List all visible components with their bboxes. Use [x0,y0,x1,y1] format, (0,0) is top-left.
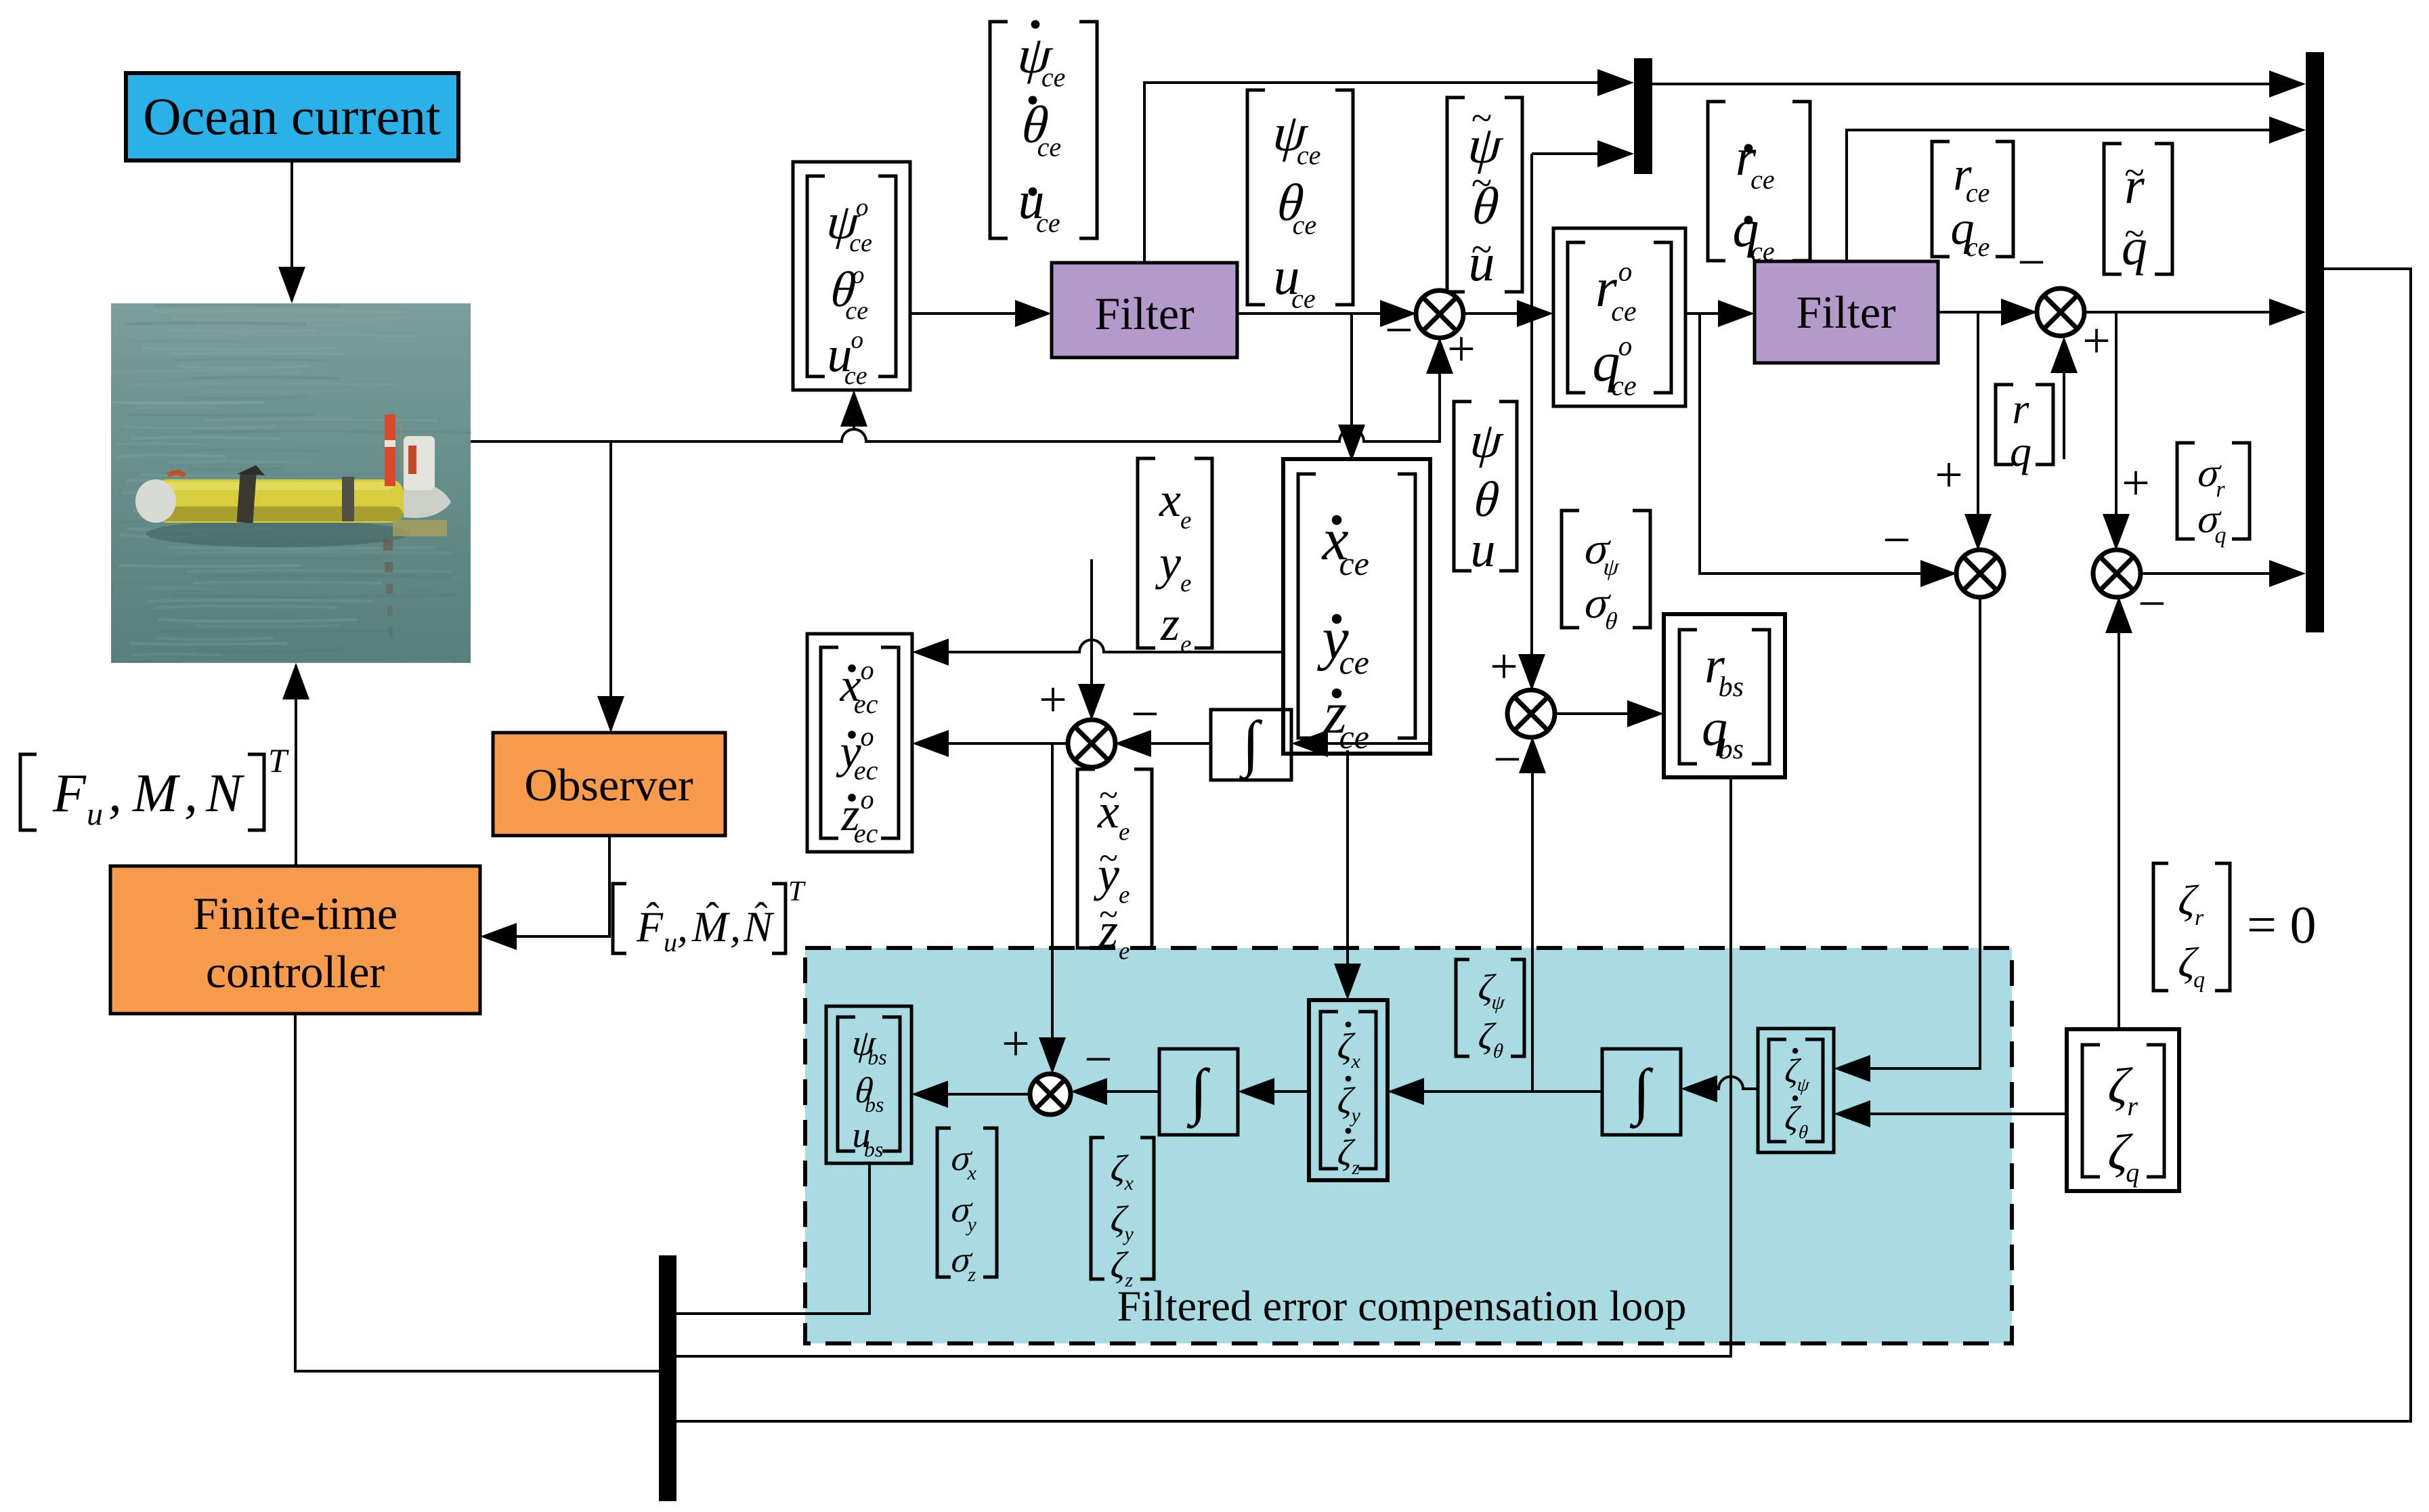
svg-text:e: e [1180,570,1191,598]
wire: top bus to right bus [1652,70,2306,98]
svg-text:ce: ce [1291,283,1316,314]
svg-text:e: e [1119,938,1130,966]
label matrix [r-tilde q-tilde] [2104,144,2172,276]
wire: sum5 to observer-velocity box [912,730,1069,757]
wire: rq stub into sum2 [2050,314,2111,459]
label matrix [psi-tilde theta-tilde u-tilde] [1447,98,1522,292]
svg-text:bs: bs [1719,734,1744,765]
wire: branch down into velocity-command matrix [1338,314,1365,461]
wire: sum5 branch down to sum7 (plus) [1002,743,1066,1074]
svg-text:~: ~ [1471,98,1492,139]
boxed matrix [zeta-dot_x zeta-dot_y zeta-dot_z] [1309,1000,1388,1180]
bus bar bottom-left [659,1255,676,1501]
block: Filter (attitude) [1052,263,1237,358]
wire: stub into sum5 (plus) [1039,559,1105,728]
wire: integrator2 to sum7 [1071,1032,1159,1105]
annotation [zeta_r zeta_q] = 0 [2153,863,2317,993]
wire: feedback branch to Observer [597,441,624,733]
svg-text:+: + [1039,672,1067,728]
label matrix [psi theta u] [1454,402,1517,578]
block: Observer [493,733,725,836]
svg-text:x: x [1159,473,1181,527]
boxed matrix [r_bs q_bs] [1664,614,1785,777]
svg-text:ce: ce [1037,131,1062,162]
svg-text:z: z [1160,597,1180,651]
boxed matrix [psi_bs theta_bs u_bs] [826,1006,911,1163]
filtered error compensation loop region [805,948,2012,1343]
svg-text:~: ~ [1099,896,1118,934]
wire: psi-tilde vertical and into top bus [1490,140,1634,695]
svg-text:−: − [1131,687,1159,742]
wire: command matrix to Filter1 [910,300,1052,327]
wire: controller to AUV [282,663,309,866]
label matrix [x-tilde_e y-tilde_e z-tilde_e] [1077,769,1152,966]
wire: sum1 out to rq-command box [1463,300,1553,327]
wire: sum3 out down-left into zeta-dot box [1834,597,1980,1082]
svg-text:y: y [1123,1223,1134,1245]
svg-text:o: o [1618,255,1633,286]
wire: sum7 to psi-bs box [911,1081,1030,1108]
sum junction S3 [1956,550,2004,597]
sum junction S1 (after Filter1) [1416,290,1463,338]
svg-text:bs: bs [865,1092,884,1117]
wire: controller down to bottom bus [295,1014,659,1371]
svg-text:o: o [861,655,874,685]
svg-text:z: z [1351,1157,1360,1179]
svg-text:−: − [2138,576,2166,632]
svg-text:∫: ∫ [1629,1056,1653,1129]
label matrix [zeta_psi zeta_theta] [1456,959,1524,1062]
svg-text:o: o [861,721,874,752]
svg-text:Finite-time: Finite-time [193,888,397,939]
svg-text:ce: ce [1966,232,1990,262]
boxed matrix [x-dot_ce y-dot_ce z-dot_ce] [1283,459,1430,756]
svg-text:o: o [851,326,863,354]
AUV photograph [111,303,472,663]
sum junction S7 (compensation loop) [1030,1074,1071,1115]
label matrix [zeta_x zeta_y zeta_z] [1091,1138,1154,1291]
svg-text:o: o [861,784,874,815]
svg-text:ˆ: ˆ [646,894,659,938]
wire: branch down to sum4 (plus) [2103,312,2150,550]
svg-text:ˆ: ˆ [706,894,718,938]
svg-text:Filtered error compensation lo: Filtered error compensation loop [1117,1282,1687,1330]
svg-text:r: r [2013,385,2030,433]
sum junction S5 [1068,720,1115,767]
svg-text:Observer: Observer [524,759,693,811]
svg-text:ec: ec [854,818,878,848]
wire: velocity matrix down into zeta-dot-xyz [1334,750,1361,1000]
svg-text:u: u [1471,522,1496,578]
svg-text:,: , [184,764,198,823]
wire: rbs box down and left to bottom bus [676,777,1731,1356]
svg-text:−: − [2017,235,2046,290]
svg-text:,: , [108,764,122,823]
sum junction S2 (after Filter2) [2037,288,2084,336]
svg-text:z: z [967,1263,976,1286]
svg-text:−: − [1385,303,1413,358]
svg-text:~: ~ [1471,229,1492,271]
svg-text:e: e [1119,882,1130,909]
svg-text:ce: ce [1041,62,1066,92]
svg-text:ec: ec [854,689,878,719]
label matrix [x_e y_e z_e] [1138,458,1212,659]
svg-text:ce: ce [849,229,872,257]
svg-text:ce: ce [1339,544,1369,582]
svg-text:x: x [1351,1050,1361,1073]
label matrix [sigma_x sigma_y sigma_z] [937,1128,997,1286]
wire: right bus big feedback loop [676,269,2411,1421]
svg-text:x: x [1124,1172,1134,1194]
svg-text:e: e [1180,507,1191,535]
svg-text:,: , [730,903,741,951]
svg-text:= 0: = 0 [2247,895,2317,954]
svg-text:q: q [2126,1157,2139,1188]
sum junction S6 [1507,690,1555,737]
svg-text:~: ~ [1099,840,1118,878]
svg-text:+: + [2082,314,2111,369]
svg-text:x: x [967,1162,977,1184]
svg-text:N: N [205,764,245,823]
svg-text:~: ~ [2124,152,2144,193]
wire: zeta-rq box up into sum4 (minus) [2105,576,2166,1029]
svg-text:M: M [132,764,181,823]
svg-text:∫: ∫ [1186,1056,1210,1129]
wire: branch down-right to sum3 (minus) [1700,314,1957,587]
svg-text:bs: bs [864,1137,883,1161]
svg-text:,: , [677,903,688,951]
svg-text:−: − [1493,732,1522,787]
svg-text:controller: controller [206,946,385,997]
sum junction S4 [2093,550,2141,597]
svg-text:bs: bs [867,1045,886,1069]
svg-text:ce: ce [845,297,868,325]
svg-text:bs: bs [1719,672,1744,703]
svg-text:ce: ce [1750,236,1775,266]
bus bar top-middle [1634,58,1652,174]
svg-text:q: q [2215,523,2227,548]
svg-text:u: u [664,927,677,957]
svg-text:ce: ce [1036,207,1060,238]
svg-text:r: r [2127,1091,2138,1121]
svg-text:ce: ce [844,362,867,390]
svg-text:o: o [852,261,865,289]
wire: integrator1 to sum5 [1115,687,1211,757]
svg-text:T: T [268,741,289,779]
integrator 1 [1211,708,1291,781]
wire: Filter2-out branch down to sum3 (plus) [1935,312,1992,550]
label matrix [sigma_r sigma_q] [2177,443,2250,548]
block: Ocean current [126,73,458,160]
wire: sum2 out to right bus [2084,299,2306,326]
wire: Filter2 out to sum2 [1938,235,2046,326]
boxed matrix [psi^o_ce theta^o_ce u^o_ce] [793,162,910,390]
svg-text:~: ~ [1471,163,1492,204]
label matrix [psi-dot_ce theta-dot_ce u-dot_ce] [990,20,1097,238]
svg-text:o: o [856,194,869,221]
svg-text:+: + [1935,448,1963,503]
svg-text:z: z [1124,1269,1133,1291]
svg-text:ce: ce [1339,718,1369,756]
wire: ocean current to AUV [278,160,305,303]
svg-text:T: T [788,876,806,907]
svg-text:Ocean current: Ocean current [143,87,441,146]
wire: zeta-rq box to zeta-dot box (lower) [1834,1100,2067,1127]
svg-text:Filter: Filter [1094,288,1195,339]
svg-text:~: ~ [2124,213,2144,254]
wire: zeta-dot-xyz to integrator2 [1238,1078,1309,1105]
svg-text:∫: ∫ [1239,708,1262,781]
wire: zeta-dot-psitheta to integrator3 (hop over rbs line) [1681,1075,1758,1102]
wire: sum6 out to rbs box [1554,700,1664,727]
wire: Filter1 out to sum1 [1237,300,1417,358]
svg-text:−: − [1084,1032,1113,1087]
svg-text:q: q [2193,968,2205,993]
svg-text:+: + [1002,1016,1030,1072]
svg-text:q: q [2010,427,2032,475]
boxed matrix [zeta-dot_psi zeta-dot_theta] [1758,1029,1834,1152]
label matrix [r q] [1996,385,2053,475]
svg-text:e: e [1119,819,1130,846]
wire: Filter1 top to top bus [1144,69,1634,263]
label matrix [r_ce q_ce] [1932,142,2013,262]
svg-text:−: − [1883,513,1911,568]
svg-text:y: y [1350,1104,1361,1127]
bus bar right [2306,52,2324,632]
svg-text:u: u [87,796,103,832]
svg-text:ec: ec [854,755,878,785]
svg-text:F: F [52,764,87,823]
wire: branch up into sum6 (minus) [1493,732,1546,1092]
wire: psi-bs box down-left to bottom bus [676,1163,869,1314]
wire: upper line into observer-velocity box (hop) [912,639,1283,666]
wire: feedback branch up to command matrix [840,390,867,430]
svg-text:ce: ce [1750,164,1775,194]
svg-text:~: ~ [1099,777,1118,815]
svg-text:+: + [1490,639,1518,695]
svg-text:ce: ce [1611,370,1636,402]
boxed matrix [r^o_ce q^o_ce] [1553,228,1685,406]
integrator 2 (compensation loop) [1159,1049,1238,1135]
label [F-hat_u M-hat N-hat]^T [613,876,806,957]
integrator 3 (compensation loop) [1602,1049,1681,1135]
wire: into integrator1 [1291,730,1430,757]
boxed matrix [zeta_r zeta_q] [2067,1029,2179,1191]
wire: rq-command box to Filter2 [1685,300,1755,327]
svg-text:+: + [2122,456,2150,511]
block: Finite-time controller [110,866,480,1014]
svg-text:ce: ce [1339,643,1369,681]
svg-text:ce: ce [1297,139,1321,170]
label [F_u, M, N]^T [20,741,289,832]
svg-text:Filter: Filter [1796,286,1896,338]
label matrix [psi_ce theta_ce u_ce] [1247,90,1353,314]
wire: integrator3 to zeta-dot-xyz box [1388,1078,1602,1105]
svg-text:o: o [1618,330,1633,361]
boxed matrix [x-dot^o_ec y-dot^o_ec z-dot^o_ec] [807,634,912,852]
svg-text:ce: ce [1293,209,1317,240]
wire: Filter2 top to right bus [1847,116,2306,261]
block: Filter (rate) [1755,261,1938,363]
wire: AUV state feedback (y=652) [471,322,1476,441]
svg-text:r: r [2195,905,2204,930]
wire: Observer to controller [480,836,609,950]
svg-text:ˆ: ˆ [754,894,767,938]
wire: sum4 out to right bus [2139,560,2306,587]
svg-text:ce: ce [1611,296,1636,327]
svg-text:e: e [1180,631,1191,659]
svg-text:y: y [966,1213,977,1236]
label matrix [r-dot_ce q-dot_ce] [1708,102,1810,266]
label matrix [sigma_psi sigma_theta] [1562,511,1650,634]
